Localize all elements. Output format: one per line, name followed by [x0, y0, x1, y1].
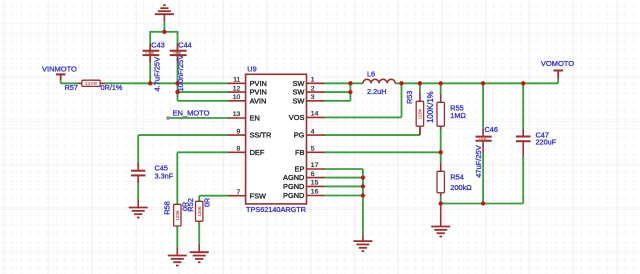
svg-text:6: 6: [311, 171, 315, 178]
svg-text:1MΩ: 1MΩ: [450, 111, 466, 120]
svg-text:C44: C44: [178, 41, 191, 50]
svg-text:2.2uH: 2.2uH: [367, 87, 386, 96]
svg-text:7: 7: [237, 189, 241, 196]
svg-text:9: 9: [237, 128, 241, 135]
svg-text:1206: 1206: [197, 206, 202, 217]
svg-text:U9: U9: [247, 65, 256, 74]
svg-text:16: 16: [311, 189, 319, 196]
svg-text:DEF: DEF: [250, 148, 265, 157]
svg-text:PVIN: PVIN: [250, 88, 267, 97]
svg-text:2: 2: [311, 85, 315, 92]
svg-text:17: 17: [311, 162, 319, 169]
svg-text:C43: C43: [151, 41, 164, 50]
svg-text:EN_MOTO: EN_MOTO: [173, 108, 210, 117]
svg-text:R58: R58: [163, 201, 172, 215]
svg-text:C46: C46: [485, 125, 498, 134]
svg-text:L6: L6: [367, 70, 375, 79]
svg-text:47uF/25V: 47uF/25V: [474, 145, 483, 178]
svg-text:1206: 1206: [418, 109, 423, 120]
svg-text:1206: 1206: [145, 52, 153, 56]
svg-text:SW: SW: [292, 96, 304, 105]
svg-text:1206: 1206: [85, 81, 97, 87]
svg-text:PVIN: PVIN: [250, 79, 267, 88]
svg-text:15: 15: [311, 180, 319, 187]
svg-text:PG: PG: [294, 131, 305, 140]
svg-text:0R/1%: 0R/1%: [101, 83, 123, 92]
svg-text:100K/1%: 100K/1%: [426, 91, 435, 123]
svg-text:AGND: AGND: [283, 173, 304, 182]
svg-text:EN: EN: [250, 114, 260, 123]
svg-text:10: 10: [233, 94, 241, 101]
svg-text:13: 13: [233, 111, 241, 118]
svg-text:R53: R53: [405, 91, 414, 104]
svg-text:PGND: PGND: [283, 182, 304, 191]
svg-text:4: 4: [311, 128, 315, 135]
svg-text:220uF: 220uF: [536, 138, 557, 147]
svg-text:12: 12: [233, 85, 241, 92]
svg-text:R57: R57: [65, 83, 78, 92]
svg-text:SW: SW: [292, 79, 304, 88]
svg-text:FSW: FSW: [250, 191, 266, 200]
svg-text:11: 11: [233, 77, 240, 84]
svg-text:SW: SW: [292, 88, 304, 97]
svg-text:VOMOTO: VOMOTO: [541, 59, 574, 68]
svg-text:0R: 0R: [202, 198, 211, 207]
svg-text:VINMOTO: VINMOTO: [42, 64, 77, 73]
svg-text:1206: 1206: [175, 210, 180, 221]
svg-text:8: 8: [237, 146, 241, 153]
svg-text:1206: 1206: [478, 137, 486, 141]
svg-text:100nF/25V: 100nF/25V: [176, 55, 185, 92]
svg-text:4.7uF/25V: 4.7uF/25V: [153, 57, 162, 92]
svg-text:1: 1: [311, 77, 315, 84]
svg-text:FB: FB: [295, 148, 305, 157]
svg-text:3: 3: [311, 94, 315, 101]
svg-text:SS/TR: SS/TR: [250, 131, 272, 140]
svg-text:AVIN: AVIN: [250, 96, 267, 105]
svg-text:14: 14: [311, 111, 319, 118]
svg-text:PGND: PGND: [283, 191, 304, 200]
svg-text:R54: R54: [450, 172, 463, 181]
svg-text:VOS: VOS: [289, 113, 305, 122]
svg-text:R52: R52: [186, 198, 195, 212]
svg-text:3.3nF: 3.3nF: [155, 172, 174, 181]
svg-text:TPS62140ARGTR: TPS62140ARGTR: [246, 205, 306, 214]
svg-text:5: 5: [311, 146, 315, 153]
svg-text:200kΩ: 200kΩ: [450, 183, 472, 192]
